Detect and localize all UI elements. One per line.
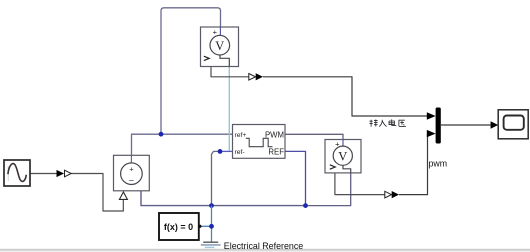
wire: mux output to scope [441, 124, 491, 126]
svg-text:f(x) = 0: f(x) = 0 [164, 222, 193, 232]
arrow: mux input1 arrowhead [427, 112, 436, 119]
glyph 输 [370, 120, 378, 127]
bottom rail junction dot left [209, 203, 214, 208]
wire: PWM output to voltmeter2 plus [285, 134, 343, 139]
svg-text:pwm: pwm [429, 159, 448, 169]
bottom rail junction dot right [303, 203, 308, 208]
wire: node A up over top rail to voltmeter1 plus [161, 8, 221, 134]
arrow: mux input2 arrowhead [427, 130, 436, 137]
wire: sine output signal [30, 174, 123, 212]
wire: voltmeter2 minus to bottom rail [306, 173, 351, 206]
glyph 电 [389, 119, 396, 125]
arrow: PS-Simulink open arrowhead [249, 74, 256, 81]
svg-text:ref-: ref- [235, 149, 245, 156]
mux block [436, 108, 441, 144]
svg-text:V: V [338, 149, 347, 163]
arrow: sine signal filled arrowhead [57, 170, 65, 177]
wire: long signal line to mux input1 [263, 77, 427, 116]
svg-text:ref+: ref+ [235, 132, 247, 139]
wire: bottom rail from vsource minus [141, 191, 306, 206]
svg-text:V: V [215, 39, 224, 53]
wire: solver f(x)=0 to ground stem [201, 225, 212, 227]
svg-text:+: + [129, 164, 134, 173]
arrow: filled arrowhead 2 [392, 191, 399, 198]
node A junction dot [159, 132, 164, 137]
wire: voltmeter1 minus down to ref- node [228, 66, 230, 151]
arrow: PS-Simulink open arrowhead 2 [385, 191, 392, 198]
electrical reference ground symbol [201, 242, 221, 247]
wire: vsource plus up to node A rail [132, 134, 233, 155]
solver junction dot [209, 224, 214, 229]
ref- junction dot [218, 149, 223, 154]
svg-text:Electrical Reference: Electrical Reference [224, 241, 303, 251]
wire: ground stem vertical [211, 206, 213, 242]
sine wave source block [4, 160, 30, 186]
wire: voltmeter1 output to mux input1 [211, 67, 249, 77]
solver configuration f(x)=0 block [159, 213, 202, 240]
svg-text:−: − [129, 176, 134, 186]
voltmeter2 block [325, 139, 361, 173]
arrow: scope input arrowhead [491, 121, 499, 128]
wire: pwm signal to mux input2 [399, 134, 428, 195]
glyph 压 [399, 120, 406, 126]
PWM generator block [233, 125, 286, 159]
svg-text:REF: REF [268, 148, 284, 157]
glyph 入 [379, 120, 386, 127]
wire: ref- from bottom rail up [212, 151, 221, 205]
arrow: S-PS converter open arrowhead [65, 170, 72, 177]
bottom window edge [0, 249, 530, 251]
scope block [498, 110, 528, 139]
voltmeter1 block [201, 27, 239, 67]
controlled voltage source block [114, 155, 150, 191]
arrow: filled arrowhead after converter [256, 73, 263, 80]
wire: voltmeter2 output to mux input2 [335, 173, 385, 195]
pwm waveform icon [246, 138, 273, 146]
wire: vsource minus exit [140, 190, 142, 192]
label 输入电压 (input voltage) custom mini glyphs [370, 119, 406, 126]
vsource physical signal input triangle port [119, 192, 127, 199]
wire: REF output down to bottom rail [285, 151, 306, 205]
